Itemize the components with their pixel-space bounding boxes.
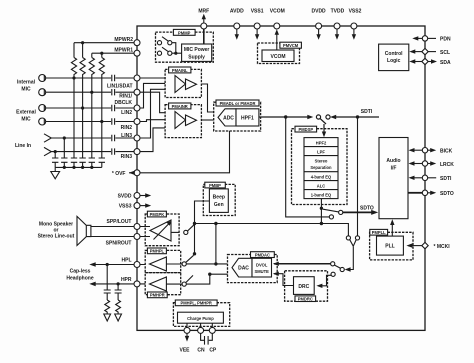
wire HPF1 out (259, 116, 311, 118)
pin SPP (134, 224, 140, 230)
wire MPWR2 (74, 43, 134, 58)
svg-text:PMDRC: PMDRC (298, 297, 313, 302)
svg-text:PMADL or PMADR: PMADL or PMADR (220, 101, 256, 106)
capacitor flying CN-CP (201, 333, 213, 344)
speaker icon (77, 216, 91, 245)
svg-text:PMPLL: PMPLL (372, 230, 386, 235)
node R3/RIN1 (90, 91, 93, 94)
wire RIN1 to ampR (140, 92, 165, 113)
svg-text:DVOL: DVOL (256, 262, 268, 267)
resistor R2 (80, 58, 85, 109)
switch MPWR1 (157, 51, 161, 55)
power block PMVCM dashed (258, 43, 300, 64)
svg-text:Beep: Beep (213, 195, 225, 201)
resistor HPR shunt (116, 300, 121, 314)
svg-text:Charge Pump: Charge Pump (187, 316, 214, 321)
wire dac up to mix (215, 224, 217, 264)
charge pump dashed (173, 303, 229, 327)
capacitor series C-LIN3 (52, 135, 135, 141)
svg-text:PMHPR: PMHPR (150, 293, 165, 298)
pin AVDD (234, 23, 240, 29)
pin RIN3 (134, 149, 140, 155)
wire VSS3 arrow (140, 205, 148, 207)
wire SCL (411, 51, 422, 53)
svg-text:Audio: Audio (386, 158, 400, 164)
DAC dashed PMDAC (228, 255, 278, 283)
mic power supply box (182, 44, 212, 61)
svg-text:PMVCM: PMVCM (283, 43, 299, 48)
svg-text:MIC Power: MIC Power (184, 47, 210, 53)
svg-text:SPN/ROUT: SPN/ROUT (106, 240, 132, 246)
svg-text:CN: CN (197, 348, 205, 354)
svg-text:MRF: MRF (198, 8, 209, 14)
svg-text:Cap-less: Cap-less (70, 268, 91, 274)
ground HPR arrow (115, 314, 122, 321)
wire beep out (195, 201, 210, 254)
svg-text:MPWR1: MPWR1 (114, 47, 133, 53)
resistor R1 (71, 58, 76, 79)
pin LRCK (422, 161, 427, 166)
svg-text:Separation: Separation (310, 165, 332, 170)
node R1/LIN1 (72, 76, 75, 79)
wire decoupling columns (55, 78, 102, 167)
pin PDN (422, 36, 427, 41)
svg-text:TVDD: TVDD (331, 8, 345, 14)
resistor R3 (89, 58, 94, 93)
mic amp R dashed PMAINR (165, 105, 201, 138)
arrow MRF up (203, 18, 205, 24)
wire HPR in (140, 283, 182, 285)
svg-text:PMHPL, PMHPR: PMHPL, PMHPR (181, 301, 212, 306)
wire DSP out down to mix bus (320, 208, 322, 223)
pin CP (209, 327, 215, 333)
audio interface box (379, 138, 408, 219)
svg-text:MIC: MIC (21, 87, 31, 93)
svg-text:1-band EQ: 1-band EQ (311, 192, 332, 197)
svg-text:SVDD: SVDD (118, 194, 132, 200)
beep gen box (209, 189, 228, 213)
wire LRCK (410, 163, 422, 165)
svg-text:MPWR2: MPWR2 (114, 37, 133, 43)
pin VSS2 (351, 23, 357, 29)
pin SCL (422, 48, 428, 54)
pin RIN1 (134, 89, 140, 95)
svg-text:PMAINL: PMAINL (172, 68, 188, 73)
switch SDTO select (323, 209, 339, 212)
svg-text:VSS1: VSS1 (251, 8, 264, 14)
svg-text:SDTO: SDTO (440, 191, 454, 197)
svg-text:SPP/LOUT: SPP/LOUT (106, 219, 131, 225)
pin VSS3 (134, 203, 140, 209)
svg-text:HPR: HPR (121, 277, 132, 283)
pin SDTO (422, 190, 427, 195)
capacitor HPR shunt (115, 284, 122, 300)
wire LIN2 to ampL (140, 83, 165, 108)
pin LIN2 (134, 105, 140, 111)
switch HPL (182, 262, 186, 266)
svg-text:SDTI: SDTI (361, 109, 373, 115)
capacitor HPL shunt (104, 265, 111, 301)
svg-text:LIN1/SDAT: LIN1/SDAT (107, 83, 132, 89)
wire MRF to mic supply (203, 29, 205, 44)
svg-text:SMUTE: SMUTE (255, 269, 270, 274)
wire DRC out (274, 274, 294, 286)
ground (51, 167, 60, 178)
svg-text:PMHPL: PMHPL (150, 249, 165, 254)
svg-text:SDTI: SDTI (440, 176, 452, 182)
wire LIN1 to ampL (140, 77, 165, 79)
wire RIN3 to ampR (140, 128, 165, 152)
svg-text:Internal: Internal (17, 80, 36, 86)
svg-text:MIC: MIC (21, 116, 31, 122)
arrow TVDD down (336, 29, 338, 36)
wire ampL out to ADC (201, 84, 213, 112)
HP amp R (150, 277, 167, 291)
svg-text:VSS2: VSS2 (349, 8, 362, 14)
wire DAC L out (186, 263, 227, 265)
resistor HPL shunt (105, 300, 110, 314)
svg-text:PLL: PLL (385, 244, 394, 250)
wire CN (200, 323, 202, 327)
svg-text:VCOM: VCOM (271, 54, 286, 60)
svg-text:ALC: ALC (317, 183, 325, 188)
pin VEE (184, 327, 190, 333)
wire SDTI pin (410, 177, 422, 179)
control logic box (379, 44, 409, 71)
wire spk in (171, 231, 179, 233)
wire SPP (91, 226, 134, 228)
svg-text:VSS3: VSS3 (119, 204, 132, 210)
pin VCOM (274, 23, 280, 29)
svg-text:LPF: LPF (317, 149, 325, 154)
amp R stage1 (175, 112, 186, 129)
pin SDTI (422, 175, 427, 180)
wire mix bus (195, 224, 349, 236)
svg-text:* OVF: * OVF (112, 171, 126, 177)
wire PLL to audio IF (391, 222, 393, 237)
svg-text:RIN1/: RIN1/ (119, 94, 132, 100)
HP amp L dashed PMHPL (145, 250, 181, 272)
PLL dashed PMPLL (370, 232, 413, 260)
wire PDN (414, 37, 422, 39)
speaker amp dashed PMSPK (145, 214, 179, 246)
wire OVF to ADC (140, 131, 230, 173)
external mic 2 (39, 118, 46, 125)
DAC (232, 258, 252, 277)
PLL box (377, 236, 404, 255)
svg-text:SDA: SDA (440, 60, 451, 66)
svg-text:HPF2: HPF2 (316, 140, 327, 145)
HP amp R dashed PMHPR (145, 273, 181, 295)
power block PMMP dashed (156, 32, 214, 62)
switch DRC tap (331, 272, 335, 276)
wire LIN3 to ampL (140, 89, 165, 138)
svg-text:RIN2: RIN2 (121, 125, 133, 131)
svg-text:PMDSP: PMDSP (299, 127, 314, 132)
node R4/RIN2 (100, 120, 103, 123)
wire HPL in (140, 263, 182, 266)
HPF1 (236, 109, 259, 126)
svg-text:SDTO: SDTO (360, 205, 374, 211)
capacitor series C-LIN2 (46, 105, 134, 111)
line-in jack L (44, 134, 51, 142)
node MPWR1 bias (100, 52, 103, 55)
wire RIN2 to ampR (140, 120, 165, 122)
label box PMVCM (280, 42, 302, 48)
svg-text:Gen: Gen (214, 202, 224, 208)
wire SDTI down to DAC select (357, 117, 359, 236)
svg-text:PDN: PDN (440, 37, 451, 43)
wire MPWR1 (92, 53, 134, 57)
svg-text:PMBP: PMBP (209, 183, 221, 188)
capacitor series C-RIN3 (52, 148, 135, 154)
wire CP (211, 323, 213, 327)
pin SPN (134, 234, 140, 240)
svg-text:Headphone: Headphone (66, 275, 93, 281)
pin MPWR1 (134, 50, 140, 56)
line-in jack R (44, 147, 51, 155)
wire DSP out (320, 199, 322, 209)
amp L stage1 (175, 76, 186, 93)
wire HPL external (91, 264, 134, 266)
pin SVDD (134, 193, 140, 199)
pin TVDD (334, 23, 340, 29)
chip outline (137, 26, 425, 330)
pin BICK (422, 148, 427, 153)
svg-text:LIN3: LIN3 (121, 133, 132, 139)
wire ADC direct to switch (286, 117, 330, 217)
wire SPN (91, 236, 134, 238)
switch spk (184, 230, 188, 234)
mic amp L dashed PMAINL (165, 69, 201, 97)
pin MPWR2 (134, 40, 140, 46)
svg-text:* MCKI: * MCKI (434, 244, 451, 250)
pin OVF (134, 170, 140, 176)
wire MCKI (408, 245, 422, 247)
capacitor series C-RIN1 (46, 89, 134, 95)
svg-text:DRC: DRC (298, 284, 309, 290)
label box PMMP (173, 29, 195, 35)
resistor R4 (99, 58, 104, 122)
internal mic 2 (39, 89, 46, 96)
svg-text:VCOM: VCOM (270, 8, 285, 14)
svg-text:DAC: DAC (238, 266, 249, 272)
svg-text:HPF1: HPF1 (241, 116, 254, 122)
wire SDTO to audio IF (343, 211, 376, 213)
pin LIN3 (134, 135, 140, 141)
svg-text:4-band EQ: 4-band EQ (311, 174, 332, 179)
DRC box (294, 277, 315, 295)
wire VCOM arrow up (276, 33, 278, 50)
DVOL SMUTE box (252, 258, 272, 277)
pin SDA (422, 58, 428, 64)
wire BICK (410, 149, 422, 151)
pin RIN2 (134, 119, 140, 125)
capacitor shunt plates (52, 158, 105, 162)
svg-text:Line In: Line In (15, 143, 31, 149)
arrow VEE down (186, 333, 188, 338)
wire spk outs (140, 227, 150, 237)
VCOM box (262, 50, 294, 62)
wire ground bus (55, 166, 102, 168)
ground HPL arrow (104, 314, 111, 321)
svg-text:I/F: I/F (391, 166, 397, 172)
speaker amp (150, 220, 171, 241)
svg-text:DVDD: DVDD (312, 8, 327, 14)
external mic 1 (39, 105, 46, 112)
wire HPR external (91, 283, 134, 285)
pin MRF (201, 23, 207, 29)
ADC dashed PMADL (214, 102, 261, 131)
switch ADC/SDTI to DSP (316, 115, 320, 119)
wire SDTI from audio IF (332, 116, 380, 118)
wire ampR out to ADC (201, 119, 213, 121)
pin VSS1 (254, 23, 260, 29)
arrow AVDD down (236, 29, 238, 36)
switch DAC input select (346, 236, 350, 240)
wire OVF out arrow (129, 172, 134, 174)
internal mic 1 (39, 75, 46, 82)
wire SDTO pin (408, 192, 422, 194)
switch HPR (182, 282, 186, 286)
wire SVDD arrow (140, 195, 148, 197)
pin HPR (134, 281, 140, 287)
charge pump box (178, 312, 224, 323)
svg-text:SCL: SCL (440, 50, 450, 56)
pin LIN1 (134, 75, 140, 81)
wire to DVOL (274, 263, 331, 265)
svg-text:PMDAC: PMDAC (255, 253, 270, 258)
svg-text:CP: CP (209, 348, 217, 354)
svg-text:External: External (16, 109, 36, 115)
capacitor series C-RIN2 (46, 118, 134, 124)
DSP dashed PMDSP (292, 129, 348, 205)
svg-text:Logic: Logic (387, 58, 401, 64)
DSP stack box (304, 138, 338, 199)
svg-text:PMMP: PMMP (178, 30, 191, 35)
switch MPWR2 (157, 41, 161, 45)
svg-text:Supply: Supply (188, 54, 205, 60)
wire SDA (412, 61, 422, 63)
svg-text:PMAINR: PMAINR (172, 104, 188, 109)
arrow VSS1 down (256, 29, 258, 36)
svg-text:LRCK: LRCK (440, 162, 454, 168)
wire DAC R out (186, 274, 227, 284)
svg-text:RIN3: RIN3 (121, 154, 133, 160)
svg-text:PMSPK: PMSPK (150, 212, 165, 217)
capacitor series C-LIN1 (46, 75, 134, 81)
amp R stage2 (186, 115, 197, 126)
pin CN (198, 327, 204, 333)
beep gen dashed PMBP (203, 184, 235, 215)
wire VEE (186, 323, 188, 327)
HP amp L (150, 257, 167, 271)
node MPWR2 bias (81, 41, 84, 44)
ADC (218, 109, 236, 126)
svg-text:DBCLK: DBCLK (115, 100, 133, 106)
svg-text:Stereo Line-out: Stereo Line-out (38, 234, 75, 240)
arrow DVDD down (318, 29, 320, 36)
pin MCKI (422, 242, 428, 248)
svg-text:VEE: VEE (179, 348, 190, 354)
svg-text:BICK: BICK (440, 149, 453, 155)
svg-text:Stereo: Stereo (315, 159, 328, 164)
svg-text:HPL: HPL (122, 258, 132, 264)
svg-text:Control: Control (385, 51, 403, 57)
svg-text:ADC: ADC (223, 116, 234, 122)
arrow VSS2 down (353, 29, 355, 36)
node R2/LIN2 (81, 106, 84, 109)
svg-text:AVDD: AVDD (230, 8, 244, 14)
pin DVDD (316, 23, 322, 29)
amp L stage2 (186, 79, 197, 90)
svg-text:LIN2: LIN2 (121, 110, 132, 116)
DRC dashed PMDRC (285, 271, 328, 301)
pin HPL (134, 262, 140, 268)
